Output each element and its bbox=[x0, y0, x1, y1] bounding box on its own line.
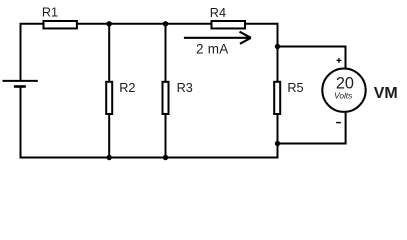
node: junction dot top of R2 bbox=[107, 21, 112, 26]
node: junction dot right branch to voltmeter (bottom) bbox=[275, 141, 280, 146]
wire: top horizontal R4 to right corner, down to VM tap bbox=[244, 24, 277, 48]
wire: right vertical upper (to R5) bbox=[277, 45, 279, 82]
resistor R2 bbox=[106, 82, 112, 114]
svg-text:VM: VM bbox=[374, 85, 398, 102]
wire: R2 vertical lower bbox=[108, 114, 110, 158]
wire: R3 vertical upper bbox=[165, 24, 167, 82]
wire: bottom branch to voltmeter bbox=[278, 112, 346, 144]
resistor R1 bbox=[44, 21, 77, 28]
label - (voltmeter negative terminal) bbox=[336, 122, 341, 124]
resistor R3 bbox=[163, 82, 169, 114]
svg-text:Volts: Volts bbox=[334, 90, 352, 100]
svg-text:R5: R5 bbox=[287, 81, 303, 95]
resistor R5 bbox=[274, 82, 280, 114]
wire: left vertical lower (battery - to bottom-left corner) bbox=[20, 86, 22, 158]
wire: left vertical upper (battery + to top-left corner) bbox=[20, 24, 22, 81]
node: junction dot bottom of R3 bbox=[163, 155, 168, 160]
wire: top horizontal R1 to R4 bbox=[77, 23, 212, 25]
svg-text:R1: R1 bbox=[42, 6, 58, 20]
wire: R2 vertical upper bbox=[108, 24, 110, 82]
node: junction dot top of R3 bbox=[163, 21, 168, 26]
battery V1 short plate (negative) bbox=[14, 85, 26, 88]
voltmeter VM circle bbox=[322, 69, 365, 112]
node: junction dot right branch to voltmeter (top) bbox=[275, 44, 280, 49]
wire: bottom horizontal bbox=[20, 144, 278, 158]
wire: top-left horizontal to R1 bbox=[20, 23, 44, 25]
node: junction dot bottom of R2 bbox=[107, 155, 112, 160]
arrow: current direction 2 mA bbox=[184, 32, 251, 44]
svg-text:R4: R4 bbox=[210, 6, 226, 20]
wire: R3 vertical lower bbox=[165, 114, 167, 158]
wire: right vertical lower (R5 to bottom corner) bbox=[277, 114, 279, 158]
svg-text:R3: R3 bbox=[177, 81, 193, 95]
battery V1 long plate (positive) bbox=[3, 80, 38, 82]
wire: top branch to voltmeter bbox=[278, 47, 346, 70]
svg-text:R2: R2 bbox=[119, 81, 135, 95]
svg-text:2 mA: 2 mA bbox=[196, 41, 229, 56]
label + (voltmeter positive terminal) bbox=[337, 58, 342, 63]
resistor R4 bbox=[212, 21, 246, 28]
